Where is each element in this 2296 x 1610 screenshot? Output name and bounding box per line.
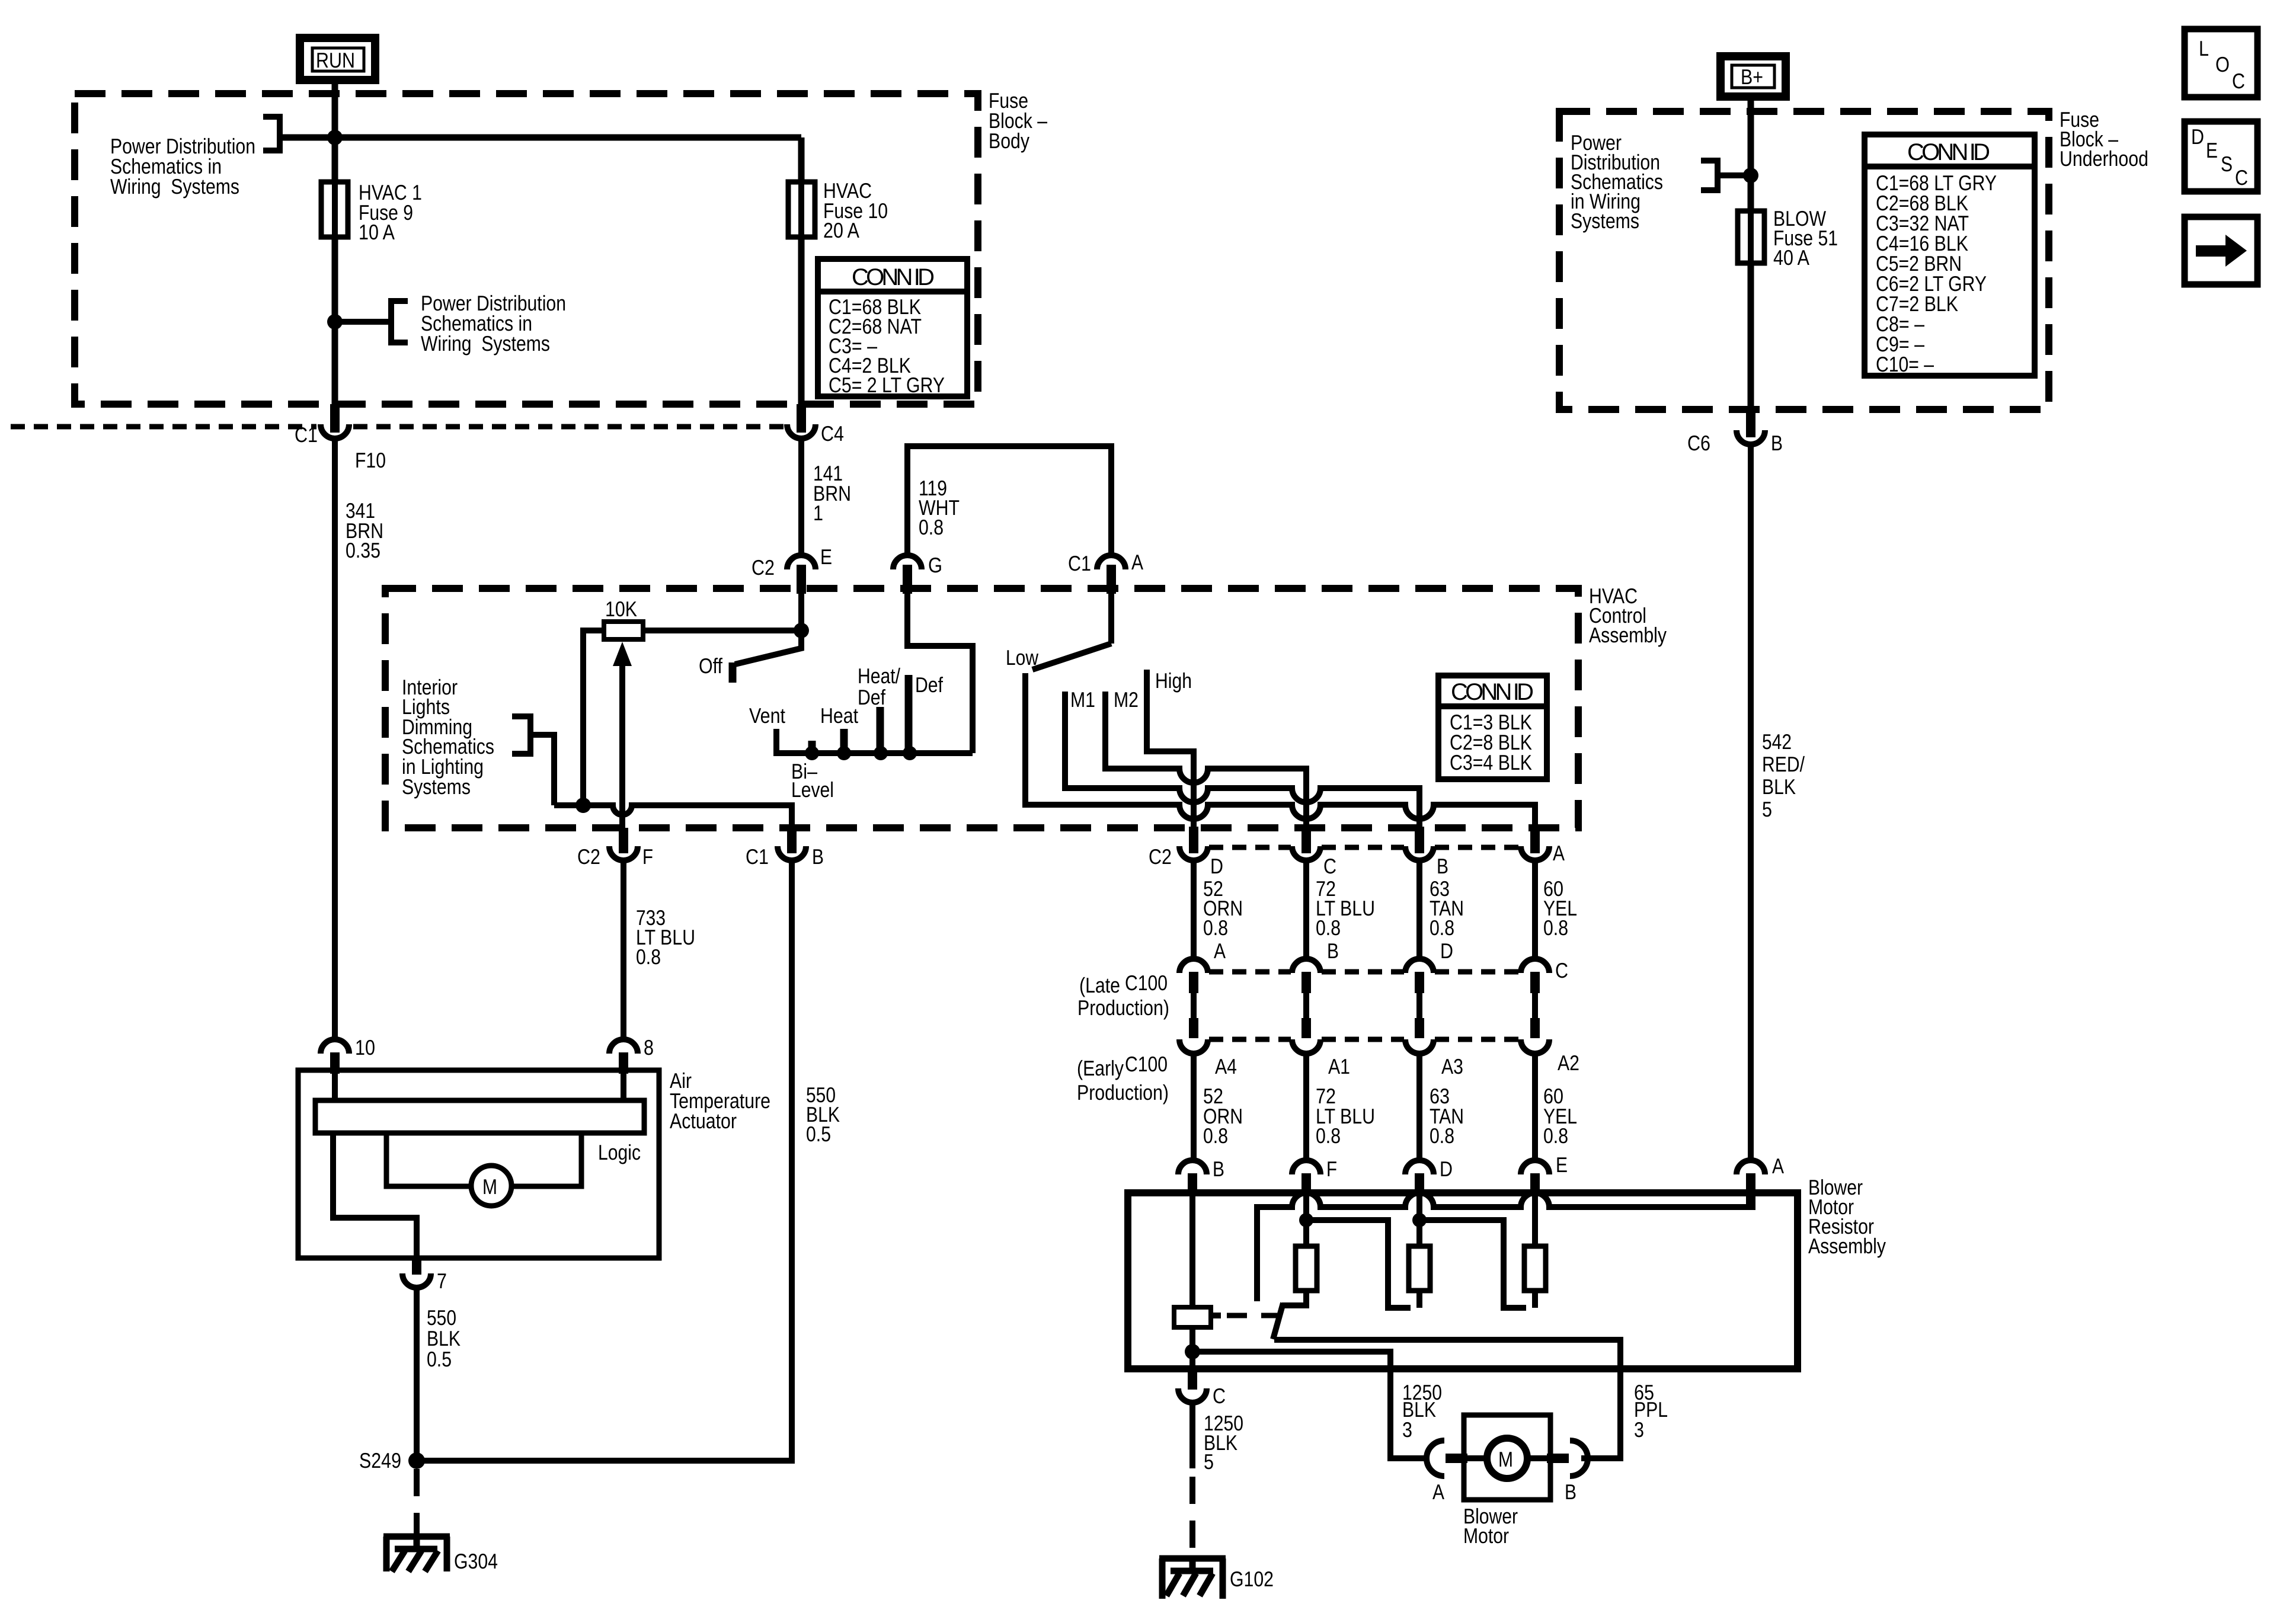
connector C100 late pin B [1292,939,1339,993]
svg-text:C: C [2232,69,2245,93]
label power distribution 2 [421,291,566,356]
svg-text:A: A [1131,550,1143,574]
svg-text:C100: C100 [1125,1052,1168,1076]
svg-text:B: B [1565,1480,1576,1504]
mode rail [776,729,973,753]
M1 contact wire to pin B with hops [1065,692,1419,846]
svg-text:0.8: 0.8 [1543,916,1568,940]
svg-text:5: 5 [1762,797,1772,821]
svg-text:C1: C1 [746,844,769,869]
svg-text:3: 3 [1402,1417,1412,1442]
connector pin 10 [321,1035,375,1074]
svg-text:8: 8 [644,1035,654,1060]
label 52 ORN 0.8 upper [1203,876,1243,940]
svg-text:40 A: 40 A [1773,245,1809,270]
connector pin 7 [402,1258,447,1293]
label 65 PPL 3 [1634,1380,1668,1442]
ignition switch RUN feed symbol [300,38,375,80]
label air temperature actuator [670,1068,770,1133]
svg-text:Production): Production) [1077,996,1169,1020]
svg-text:C: C [1555,958,1568,982]
svg-text:RUN: RUN [316,48,355,72]
svg-text:M: M [1498,1447,1513,1471]
svg-text:Production): Production) [1077,1080,1169,1105]
svg-text:0.8: 0.8 [1316,1124,1341,1148]
connector C100 early pin A3 [1405,1039,1463,1078]
connector resistor pin F [1292,1157,1337,1196]
resistor R2 [1409,1246,1430,1291]
air temperature actuator box [298,1070,659,1258]
wire 119 WHT loop [907,446,1111,553]
label early C100 [1077,1052,1169,1105]
connector C100 late pin A [1179,939,1226,993]
resistor R3 [1524,1246,1546,1291]
feed line from A with hops [1257,1193,1751,1301]
svg-text:C: C [1323,854,1336,878]
ground G304 [383,1537,450,1571]
label fuse block body [989,88,1047,153]
svg-text:Underhood: Underhood [2060,146,2148,171]
svg-text:(Early: (Early [1077,1056,1124,1080]
bracket interior lights dimming [512,716,530,754]
svg-text:Heat/: Heat/ [858,664,900,688]
label HVAC control assembly [1589,584,1667,647]
label 733 LT BLU 0.8 [636,905,695,969]
svg-text:C3=4 BLK: C3=4 BLK [1450,750,1532,774]
fuse F9 HVAC 1 [321,182,348,237]
svg-text:A: A [1553,841,1565,865]
connector resistor pin E [1521,1153,1568,1196]
wire 52 ORN lower [1191,1052,1197,1160]
wire 550 BLK to S249 [417,860,792,1461]
High contact wire to pin D [1147,670,1194,846]
connector resistor pin B [1178,1157,1224,1196]
blower motor terminal A bar [1446,1454,1467,1463]
mode switch common from G [907,594,973,753]
wire fuse 10 drop [798,137,805,184]
wire 10K left lead [583,630,604,805]
svg-text:CONN ID: CONN ID [852,264,935,290]
svg-text:0.8: 0.8 [1203,1124,1228,1148]
wire to bracket 2 [335,319,391,325]
connector C2 pin B [1405,827,1448,878]
link F to R2 bottom [1306,1220,1411,1308]
wire F node [1303,1196,1309,1246]
svg-text:C2: C2 [577,844,600,869]
connector C6 pin B [1687,409,1783,455]
dashed wire to G102 [1189,1477,1195,1558]
svg-text:E: E [2206,138,2218,162]
svg-text:D: D [1440,939,1453,963]
svg-text:B: B [1437,854,1448,878]
actuator input bar [315,1100,644,1133]
svg-text:Assembly: Assembly [1808,1234,1886,1258]
label 72 LT BLU 0.8 lower [1316,1084,1375,1148]
label fuse 51 [1773,206,1838,270]
svg-text:RED/: RED/ [1762,752,1805,776]
fan switch wiper to Off [735,631,801,664]
svg-text:E: E [820,545,832,569]
svg-text:20 A: 20 A [823,218,859,242]
svg-text:B: B [1771,431,1783,455]
wire 10K right lead [643,628,801,633]
connector C100 early pin A1 [1292,1039,1350,1078]
label late C100 [1077,971,1169,1020]
svg-text:CONN ID: CONN ID [1907,139,1990,165]
junction dot [575,798,591,813]
svg-text:0.8: 0.8 [1316,916,1341,940]
forward arrow legend box [2185,217,2257,284]
svg-text:C4: C4 [821,421,844,446]
bracket to power distribution 2 [391,301,408,343]
svg-text:G102: G102 [1230,1567,1274,1591]
wire 60 YEL lower [1532,1052,1538,1160]
svg-text:D: D [1440,1157,1453,1181]
conn id table body fuse block [818,259,967,397]
svg-text:C10= –: C10= – [1876,352,1934,376]
label Heat/Def [858,664,900,709]
svg-text:Body: Body [989,129,1029,153]
wire 141 BRN [798,438,804,558]
connector line C1 F10 fine dash [11,424,316,430]
svg-text:0.8: 0.8 [1430,916,1454,940]
svg-text:Assembly: Assembly [1589,623,1667,647]
potentiometer 10K [604,597,643,639]
blower switch wiper to Low [1032,644,1111,670]
connector C100 early pin A4 [1179,1039,1237,1078]
svg-text:C5= 2 LT GRY: C5= 2 LT GRY [829,373,945,397]
svg-text:Motor: Motor [1463,1523,1509,1548]
svg-text:A3: A3 [1441,1054,1463,1078]
svg-text:A4: A4 [1215,1054,1237,1078]
wire B+ to fuse 51 [1748,97,1754,212]
conn id table HVAC control [1438,676,1547,779]
svg-text:1: 1 [813,501,823,525]
connector C4 [787,404,844,446]
connector C1 pin A blower switch [1068,550,1143,594]
wire 550 BLK 0.5 to S249 [414,1288,420,1461]
wires into actuator bar [335,1074,623,1100]
wire 72 LT BLU upper [1303,860,1309,960]
connector C100 early mating stubs [1194,990,1535,1038]
M2 contact wire to pin C with hop [1105,692,1306,846]
wire 63 TAN upper [1416,860,1422,960]
junction dot [327,314,343,329]
svg-text:0.5: 0.5 [427,1347,452,1371]
svg-text:M1: M1 [1070,687,1095,712]
label power distribution 1 [110,134,255,199]
svg-text:Off: Off [699,654,723,678]
connector C1 F10 [295,404,386,472]
bracket to power distribution 1 [263,117,280,151]
svg-text:L: L [2199,36,2209,60]
connector C100 late fine dash [1209,969,1520,975]
wire dimming ground bus with hop over wiper [554,805,792,830]
fuse block body dashed box [75,94,978,404]
label 63 TAN 0.8 lower [1430,1084,1464,1148]
label 550 BLK 0.5 right [806,1083,840,1146]
wire ground branch to 1250 BLK 3 [1192,1352,1430,1458]
label 141 BRN 1 [813,461,851,525]
wire 60 YEL upper [1532,860,1538,960]
connector C2 fine dash row [1209,845,1520,850]
connector C2 pin D [1149,827,1223,878]
junction dot [327,130,343,145]
label 1250 BLK 3 [1402,1380,1442,1442]
svg-text:CONN ID: CONN ID [1451,679,1534,705]
DESC legend box [2185,121,2257,191]
blower motor terminal B arc [1570,1441,1588,1476]
label 550 BLK 0.5 left [427,1305,461,1371]
label fuse 9 [359,180,422,244]
svg-text:0.8: 0.8 [919,515,944,539]
svg-text:D: D [2191,124,2204,149]
wire R3 bottom lead [1532,1291,1538,1308]
label blower motor [1463,1504,1518,1548]
connector C2 pin C [1292,827,1336,878]
svg-text:Heat: Heat [820,703,858,728]
svg-text:542: 542 [1762,729,1792,754]
resistor R1 [1296,1246,1317,1291]
wire R2 bottom lead [1416,1291,1422,1308]
svg-text:S: S [2221,152,2233,176]
label power distribution 3 [1571,130,1663,233]
wire fuse 51 to C6 [1748,263,1754,430]
wire 52 ORN upper [1191,860,1197,960]
connector C2 pin E [752,545,832,594]
wire switch common A [1108,594,1114,644]
wire 341 BRN [332,438,338,1041]
svg-text:B: B [1327,939,1339,963]
connector C2 pin A [1521,827,1565,865]
svg-text:A1: A1 [1328,1054,1350,1078]
svg-text:(Late: (Late [1079,973,1120,997]
ground G102 [1159,1558,1226,1599]
tick Bi-Level [808,741,816,754]
label interior lights dimming [402,675,494,799]
tick Def [905,675,913,754]
label fuse 10 [823,178,888,242]
label 52 ORN 0.8 lower [1203,1084,1243,1148]
wire bracket 3 [1718,172,1751,178]
svg-text:C: C [2235,165,2248,190]
svg-text:M2: M2 [1114,687,1139,712]
svg-text:Systems: Systems [402,774,471,799]
wire actuator to pin 7 [333,1133,417,1258]
wire RUN to fuse 9 [332,80,338,184]
svg-text:S249: S249 [359,1448,401,1473]
svg-text:Def: Def [858,685,886,709]
connector C2 pin F dial [577,828,653,869]
wire 1250 BLK 5 [1189,1403,1195,1468]
Off contact [729,662,737,683]
svg-text:Wiring Systems: Wiring Systems [110,174,239,199]
svg-text:Def: Def [915,673,944,697]
wire dimming bracket to ground bus [530,735,554,805]
svg-text:0.8: 0.8 [636,945,661,969]
svg-text:C1: C1 [295,422,318,447]
svg-text:10K: 10K [605,597,637,621]
conn id table underhood [1865,135,2035,376]
relay switch blade [1273,1303,1283,1339]
blower motor resistor assembly box [1128,1193,1798,1369]
label 119 WHT 0.8 [919,476,960,539]
svg-text:M: M [482,1174,497,1199]
svg-text:0.8: 0.8 [1203,916,1228,940]
svg-text:C1: C1 [1068,551,1091,575]
fuse F51 BLOW [1738,211,1764,263]
svg-text:Logic: Logic [598,1140,641,1164]
wire 72 LT BLU lower [1303,1052,1309,1160]
svg-text:A: A [1432,1480,1444,1504]
fuse F10 HVAC [788,182,815,237]
svg-text:C6: C6 [1687,431,1710,455]
wire relay common to 65 PPL [1274,1340,1620,1458]
wiper arrow of 10K [613,642,632,828]
connector C1 pin B dimming [746,828,824,869]
svg-text:F: F [1326,1157,1337,1181]
svg-text:0.8: 0.8 [1543,1124,1568,1148]
wire bus RUN row [280,135,801,141]
relay coil dashed link [1211,1313,1277,1318]
svg-text:C: C [1213,1384,1226,1408]
connector C100 early fine dash [1209,1037,1520,1042]
svg-text:10 A: 10 A [359,220,395,244]
label fuse block underhood [2060,107,2148,171]
tick Heat [840,729,848,754]
svg-text:Systems: Systems [1571,209,1639,233]
svg-text:G: G [928,553,942,577]
connector C3 pin G [893,553,942,594]
link D to R3 bottom [1419,1220,1526,1308]
connector resistor pin A [1737,1154,1784,1210]
wire 733 LT BLU [621,860,626,1041]
svg-text:0.8: 0.8 [1430,1124,1454,1148]
svg-text:5: 5 [1204,1449,1214,1474]
svg-text:Actuator: Actuator [670,1109,737,1133]
svg-text:10: 10 [355,1035,375,1060]
label 60 YEL 0.8 lower [1543,1084,1577,1148]
svg-text:B+: B+ [1741,65,1763,89]
svg-text:O: O [2215,52,2230,76]
label Bi-Level [791,759,834,802]
label blower motor resistor assembly [1808,1175,1886,1258]
svg-text:3: 3 [1634,1417,1644,1442]
blower motor terminal A arc [1427,1441,1444,1476]
svg-text:A: A [1772,1154,1784,1178]
label 63 TAN 0.8 upper [1430,876,1464,940]
connector resistor pin D [1405,1157,1453,1196]
label 1250 BLK 5 [1204,1411,1243,1474]
svg-text:0.35: 0.35 [346,538,380,562]
tick Heat/Def [877,707,884,754]
wire E node [1532,1196,1538,1246]
wire fuse 10 to C4 [798,237,805,425]
wire C2 E to switch common [798,594,804,630]
wire fuse 9 to C1 [332,237,338,425]
Low contact wire to pin A with hops [1025,673,1535,846]
svg-text:Vent: Vent [749,703,785,728]
svg-text:B: B [812,844,824,869]
svg-text:C2: C2 [752,555,775,580]
svg-text:D: D [1210,854,1223,878]
wire D node [1416,1196,1422,1246]
relay coil [1174,1196,1211,1369]
wire 63 TAN lower [1416,1052,1422,1160]
connector C100 late pin D [1405,939,1453,993]
svg-text:Level: Level [791,777,834,802]
connector C100 early pin A2 [1521,1039,1579,1075]
svg-text:0.5: 0.5 [806,1122,831,1146]
label 341 BRN 0.35 [346,498,383,562]
wire 542 RED BLK [1748,444,1754,1160]
actuator logic loop with motor [386,1133,581,1206]
junction dot relay output [1185,1344,1200,1359]
label 542 RED BLK 5 [1762,729,1805,821]
LOC legend box [2185,29,2257,97]
dashed wire to G304 [414,1469,420,1537]
connector resistor pin C [1178,1369,1226,1408]
svg-text:7: 7 [437,1269,447,1293]
svg-text:Low: Low [1006,645,1039,670]
svg-text:BLK: BLK [1762,774,1796,799]
svg-text:G304: G304 [454,1549,498,1573]
blower motor box [1464,1415,1550,1500]
svg-text:E: E [1556,1153,1568,1177]
svg-text:Wiring Systems: Wiring Systems [421,331,550,356]
svg-text:B: B [1213,1157,1224,1181]
HVAC control assembly dashed box [385,588,1578,828]
battery B+ symbol [1721,56,1786,97]
bracket power distribution 3 [1701,161,1718,190]
connector pin 8 [609,1035,654,1074]
svg-text:High: High [1155,668,1192,693]
wire R1 bottom to relay contact [1282,1291,1306,1305]
label 72 LT BLU 0.8 upper [1316,876,1375,940]
svg-text:F10: F10 [355,448,386,472]
blower motor internals [1466,1438,1548,1478]
junction dot [794,623,809,638]
junction dot [1743,168,1758,183]
splice S249 [408,1452,425,1469]
connector C100 late pin C [1521,958,1568,993]
label 60 YEL 0.8 upper [1543,876,1577,940]
svg-text:C2: C2 [1149,844,1172,869]
svg-text:C100: C100 [1125,971,1168,995]
svg-text:A2: A2 [1558,1051,1579,1075]
fuse block underhood dashed box [1559,111,2049,409]
svg-text:F: F [642,844,653,869]
blower motor terminal B bar [1547,1454,1569,1463]
svg-text:A: A [1214,939,1226,963]
